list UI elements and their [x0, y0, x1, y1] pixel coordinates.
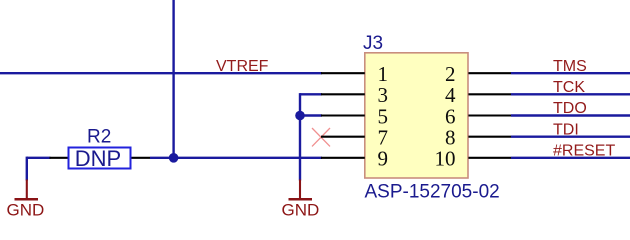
svg-text:ASP-152705-02: ASP-152705-02 — [365, 181, 500, 202]
wire R2 left segment — [27, 157, 51, 159]
pin 6 stub — [468, 114, 511, 116]
wire TCK — [511, 93, 630, 95]
pin 10 stub — [468, 157, 511, 159]
junction dot pin5 — [295, 111, 305, 121]
wire TDI — [511, 135, 630, 137]
svg-text:GND: GND — [7, 200, 45, 219]
svg-text:VTREF: VTREF — [216, 58, 269, 75]
svg-text:9: 9 — [378, 147, 389, 171]
junction dot at bus / pin9 wire — [169, 153, 179, 163]
no-connect X on pin 7 — [312, 128, 330, 146]
wire VTREF horizontal — [0, 72, 322, 74]
svg-text:TDI: TDI — [553, 121, 579, 138]
pin 7 stub — [321, 136, 365, 138]
svg-text:J3: J3 — [363, 33, 383, 54]
ground GND middle symbol — [299, 180, 301, 200]
svg-text:10: 10 — [435, 147, 456, 171]
svg-text:DNP: DNP — [75, 146, 121, 171]
pin 1 stub — [321, 72, 365, 74]
svg-text:#RESET: #RESET — [553, 142, 615, 159]
wire left GND drop — [26, 157, 28, 181]
pin 4 stub — [468, 93, 511, 95]
wire R2 right segment to pin 9 — [150, 157, 322, 159]
pin 9 stub — [321, 157, 365, 159]
wire #RESET — [511, 157, 630, 159]
wire pin5 stub — [300, 114, 322, 116]
pin 2 stub — [468, 72, 511, 74]
wire pin3 vertical drop to gnd — [299, 93, 301, 180]
svg-text:TDO: TDO — [553, 100, 587, 117]
svg-text:TCK: TCK — [553, 79, 585, 96]
svg-text:GND: GND — [282, 200, 320, 219]
wire TMS — [511, 72, 630, 74]
svg-text:TMS: TMS — [553, 58, 587, 75]
pin 3 stub — [321, 93, 365, 95]
pin 8 stub — [468, 136, 511, 138]
wire vertical bus x=173.5 — [172, 0, 174, 158]
wire TDO — [511, 114, 630, 116]
wire pin3 horizontal — [300, 93, 322, 95]
resistor R2 pin stubs — [50, 157, 69, 159]
pin 5 stub — [321, 114, 365, 116]
svg-text:R2: R2 — [87, 127, 111, 148]
resistor R2 body (DNP) — [69, 148, 131, 169]
ground GND left symbol — [26, 180, 28, 200]
connector J3 body — [365, 53, 468, 178]
